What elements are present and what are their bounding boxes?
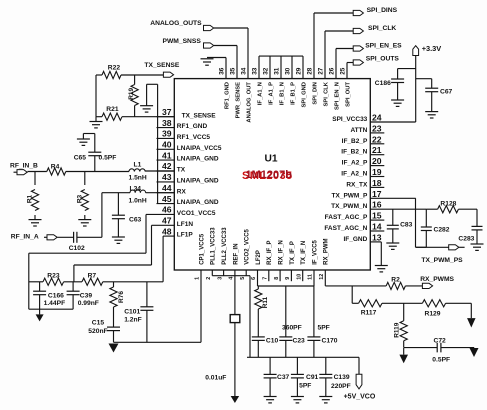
svg-text:46: 46: [162, 205, 172, 215]
svg-text:C63: C63: [129, 217, 142, 224]
svg-text:IF_A1_N: IF_A1_N: [257, 82, 263, 105]
svg-text:12: 12: [319, 274, 325, 280]
svg-text:C15: C15: [92, 320, 105, 327]
svg-text:1.2nF: 1.2nF: [124, 316, 141, 323]
svg-text:2: 2: [206, 277, 212, 280]
svg-text:CP1_VCC5: CP1_VCC5: [199, 233, 205, 265]
svg-text:R4: R4: [51, 163, 60, 170]
svg-text:R117: R117: [361, 310, 377, 317]
svg-text:0.99nF: 0.99nF: [78, 300, 99, 307]
svg-text:TX_SENSE: TX_SENSE: [144, 62, 179, 69]
svg-text:SPI_GND: SPI_GND: [301, 82, 307, 107]
svg-text:23: 23: [372, 123, 382, 133]
svg-text:IF_GND: IF_GND: [343, 236, 367, 243]
svg-text:C170: C170: [322, 337, 338, 344]
svg-text:3: 3: [217, 277, 223, 280]
svg-text:SPI_DIN: SPI_DIN: [312, 82, 318, 105]
svg-text:C283: C283: [458, 236, 474, 243]
svg-text:220PF: 220PF: [331, 383, 351, 390]
svg-text:RF_IN_B: RF_IN_B: [10, 163, 38, 170]
svg-text:26: 26: [329, 67, 336, 75]
svg-text:39: 39: [162, 129, 172, 139]
svg-text:5PF: 5PF: [299, 383, 311, 390]
svg-text:C186: C186: [375, 80, 391, 87]
svg-text:VCO2_VCC5: VCO2_VCC5: [245, 228, 251, 264]
svg-text:RX_PWMS: RX_PWMS: [420, 276, 454, 283]
svg-text:9: 9: [285, 277, 291, 280]
svg-text:R2: R2: [391, 277, 400, 284]
svg-text:L1: L1: [134, 161, 142, 168]
svg-text:520nF: 520nF: [88, 328, 107, 335]
svg-text:RX_IF_P: RX_IF_P: [267, 240, 273, 264]
svg-text:0.01uF: 0.01uF: [205, 375, 226, 382]
svg-text:SPI_EN_N: SPI_EN_N: [334, 82, 340, 110]
svg-text:R21: R21: [106, 106, 119, 113]
svg-text:27: 27: [318, 67, 325, 75]
svg-text:15: 15: [372, 211, 382, 221]
svg-text:19: 19: [372, 167, 382, 177]
svg-text:LF2P: LF2P: [256, 250, 262, 265]
svg-text:R76: R76: [118, 291, 125, 303]
svg-text:TX_PWM_PS: TX_PWM_PS: [421, 257, 463, 264]
svg-text:5: 5: [240, 277, 246, 280]
svg-text:LNAIPA_VCC5: LNAIPA_VCC5: [177, 145, 222, 152]
svg-text:L34: L34: [130, 185, 142, 192]
svg-text:7: 7: [263, 277, 269, 280]
svg-text:C166: C166: [48, 292, 64, 299]
svg-text:14: 14: [372, 222, 382, 232]
svg-text:RX: RX: [177, 188, 187, 195]
svg-text:C139: C139: [334, 374, 350, 381]
svg-text:C102: C102: [69, 245, 85, 252]
svg-text:10: 10: [296, 274, 302, 280]
svg-text:R119: R119: [393, 322, 400, 338]
svg-text:TX_SENSE: TX_SENSE: [182, 112, 217, 119]
svg-text:PWM_SNSS: PWM_SNSS: [163, 38, 202, 45]
svg-text:20: 20: [372, 156, 382, 166]
svg-text:ANALOG_OUT: ANALOG_OUT: [246, 82, 252, 123]
svg-text:37: 37: [162, 107, 172, 117]
svg-text:PLL2_VCC33: PLL2_VCC33: [222, 227, 228, 265]
svg-text:IF_B2_P: IF_B2_P: [342, 138, 368, 145]
svg-text:R3: R3: [76, 194, 83, 203]
svg-text:40: 40: [162, 140, 172, 150]
svg-text:C67: C67: [440, 88, 453, 95]
svg-text:31: 31: [274, 67, 281, 75]
svg-text:+5V_VCO: +5V_VCO: [344, 394, 376, 401]
svg-text:28: 28: [307, 67, 314, 75]
svg-text:45: 45: [162, 194, 172, 204]
svg-text:0.5PF: 0.5PF: [432, 357, 450, 364]
svg-text:RX_TX: RX_TX: [346, 181, 368, 188]
svg-text:42: 42: [162, 161, 172, 171]
svg-text:LNAIPA_GND: LNAIPA_GND: [177, 199, 219, 206]
svg-text:C37: C37: [277, 374, 290, 381]
svg-text:4: 4: [229, 277, 235, 280]
svg-text:C39: C39: [80, 292, 93, 299]
svg-text:C23: C23: [293, 337, 306, 344]
svg-text:34: 34: [241, 67, 248, 75]
svg-text:LNAIPA_GND: LNAIPA_GND: [177, 178, 219, 185]
svg-text:IF_B2_N: IF_B2_N: [341, 149, 367, 156]
svg-text:R7: R7: [88, 272, 97, 279]
svg-text:TX_PWM_P: TX_PWM_P: [332, 192, 368, 199]
svg-text:SPI_DINS: SPI_DINS: [367, 7, 398, 14]
svg-text:VCO1_VCC5: VCO1_VCC5: [177, 210, 216, 217]
svg-text:SPI_OUTS: SPI_OUTS: [366, 56, 400, 63]
svg-text:38: 38: [162, 118, 172, 128]
svg-text:C10: C10: [266, 337, 279, 344]
svg-text:48: 48: [162, 226, 172, 236]
svg-text:C72: C72: [434, 337, 447, 344]
svg-text:C101: C101: [124, 309, 140, 316]
svg-text:PLL1_VCC33: PLL1_VCC33: [211, 227, 217, 265]
svg-text:RF1_VCC5: RF1_VCC5: [177, 134, 211, 141]
svg-text:LNAIPA_GND: LNAIPA_GND: [177, 156, 219, 163]
svg-text:32: 32: [263, 67, 270, 75]
svg-text:RF_IN_A: RF_IN_A: [11, 233, 39, 240]
svg-text:43: 43: [162, 172, 172, 182]
svg-text:TX_IF_P: TX_IF_P: [290, 241, 296, 265]
svg-text:SPI_OUT: SPI_OUT: [345, 82, 351, 107]
svg-text:29: 29: [296, 67, 303, 75]
svg-text:ANALOG_OUTS: ANALOG_OUTS: [150, 20, 202, 27]
svg-text:R1: R1: [27, 194, 34, 203]
svg-text:R129: R129: [425, 310, 441, 317]
svg-text:R11: R11: [262, 296, 269, 308]
svg-text:41: 41: [162, 150, 172, 160]
svg-text:R23: R23: [47, 272, 60, 279]
svg-text:R128: R128: [440, 201, 456, 208]
svg-text:1M1207b: 1M1207b: [246, 169, 293, 181]
svg-text:R19: R19: [128, 87, 135, 99]
svg-text:RF1_GND: RF1_GND: [224, 82, 230, 109]
svg-text:18: 18: [372, 178, 382, 188]
svg-text:TX_IF_N: TX_IF_N: [301, 241, 307, 265]
svg-text:1.44PF: 1.44PF: [44, 300, 66, 307]
svg-text:30: 30: [285, 67, 292, 75]
svg-text:RF1_GND: RF1_GND: [177, 123, 208, 130]
svg-text:13: 13: [372, 232, 382, 242]
svg-text:RX_IF_N: RX_IF_N: [279, 240, 285, 265]
svg-text:PWR_SENSE: PWR_SENSE: [235, 82, 241, 119]
svg-text:+3.3V: +3.3V: [422, 44, 442, 53]
svg-text:6: 6: [251, 277, 257, 280]
svg-text:C65: C65: [74, 155, 87, 162]
svg-text:SPI_CLK: SPI_CLK: [368, 25, 396, 32]
svg-text:0.5PF: 0.5PF: [99, 155, 117, 162]
svg-text:22: 22: [372, 134, 382, 144]
svg-text:FAST_AGC_N: FAST_AGC_N: [324, 225, 367, 232]
svg-text:11: 11: [308, 274, 314, 280]
svg-text:1: 1: [195, 277, 201, 280]
svg-text:16: 16: [372, 200, 382, 210]
svg-text:44: 44: [162, 183, 172, 193]
svg-text:FAST_AGC_P: FAST_AGC_P: [325, 214, 368, 221]
svg-text:1.0nH: 1.0nH: [129, 198, 147, 205]
svg-text:U1: U1: [265, 154, 278, 165]
svg-text:33: 33: [252, 67, 259, 75]
svg-text:IF_A2_N: IF_A2_N: [341, 171, 367, 178]
svg-text:36: 36: [219, 67, 226, 75]
svg-text:IF_B1_N: IF_B1_N: [279, 82, 285, 105]
svg-text:24: 24: [372, 113, 382, 123]
svg-text:TX_PWM_N: TX_PWM_N: [331, 203, 367, 210]
svg-text:LF1N: LF1N: [177, 221, 194, 228]
svg-text:SPI_VCC33: SPI_VCC33: [332, 116, 367, 123]
svg-text:8: 8: [274, 277, 280, 280]
svg-text:C91: C91: [306, 374, 319, 381]
svg-text:IF_A1_P: IF_A1_P: [268, 82, 274, 105]
svg-text:IF_A2_P: IF_A2_P: [342, 160, 368, 167]
svg-text:C83: C83: [400, 222, 413, 229]
svg-text:1.5nH: 1.5nH: [129, 175, 147, 182]
svg-text:RX_PWM: RX_PWM: [324, 238, 330, 264]
svg-text:47: 47: [162, 216, 172, 226]
svg-text:IF_B1_P: IF_B1_P: [290, 82, 296, 105]
svg-text:LF1P: LF1P: [177, 232, 194, 239]
svg-text:ATTN: ATTN: [350, 127, 367, 134]
svg-text:SPI_CLK: SPI_CLK: [323, 81, 329, 106]
svg-text:C282: C282: [434, 226, 450, 233]
svg-text:35: 35: [230, 67, 237, 75]
svg-text:R22: R22: [108, 65, 121, 72]
svg-text:SPI_EN_ES: SPI_EN_ES: [365, 42, 402, 49]
svg-text:17: 17: [372, 189, 382, 199]
svg-text:21: 21: [372, 145, 382, 155]
svg-text:5PF: 5PF: [318, 325, 330, 332]
svg-text:REF_IN: REF_IN: [233, 243, 239, 264]
svg-text:IF_VCC5: IF_VCC5: [312, 239, 318, 264]
svg-text:25: 25: [340, 67, 347, 75]
svg-text:TX: TX: [177, 167, 186, 174]
svg-text:360PF: 360PF: [282, 325, 302, 332]
